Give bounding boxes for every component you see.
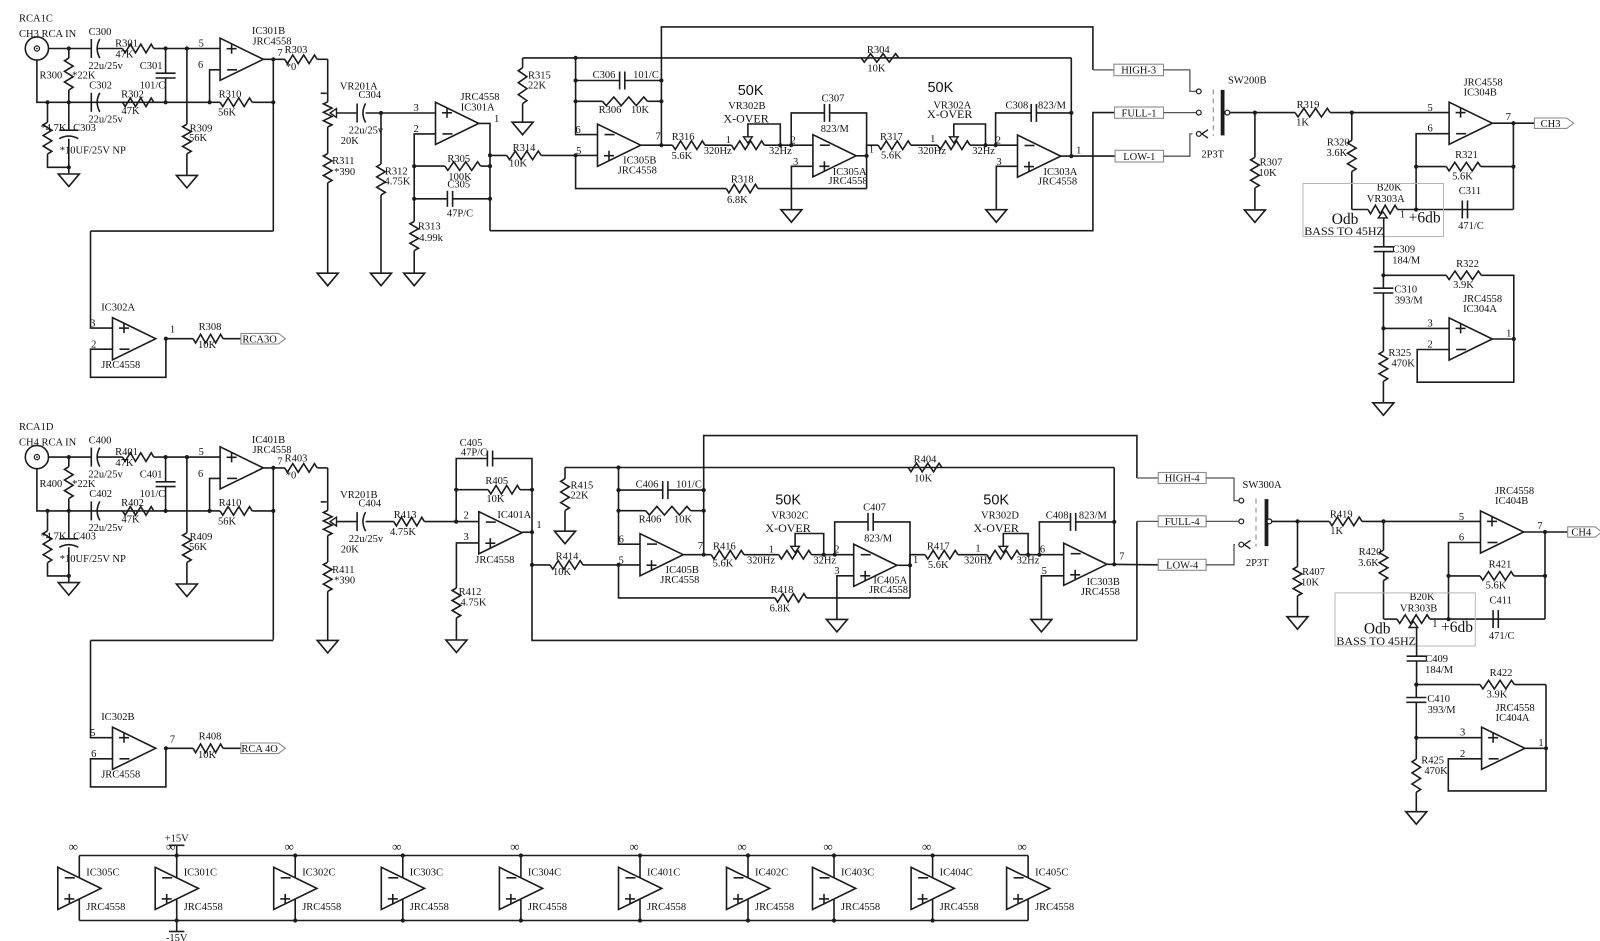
svg-text:1: 1 <box>913 555 918 566</box>
wire out IC405A <box>897 564 910 566</box>
svg-text:56K: 56K <box>189 542 208 553</box>
node V- IC401C <box>638 918 642 922</box>
node pot out <box>1414 207 1418 211</box>
power pins IC402C <box>747 856 749 921</box>
svg-text:IC302A: IC302A <box>101 303 135 314</box>
svg-text:1: 1 <box>170 325 175 336</box>
node V- IC304C <box>519 918 523 922</box>
svg-text:JRC4558: JRC4558 <box>869 585 908 596</box>
ground input filter <box>58 583 79 596</box>
freq label 320Hz b <box>918 146 946 157</box>
value label 50K b <box>927 80 953 96</box>
node pin6-R321 left <box>1414 165 1418 169</box>
wire out IC303A <box>1061 155 1115 157</box>
node row2 a <box>45 509 49 513</box>
pin label 7 <box>277 48 282 59</box>
wire jack shell down <box>37 469 48 511</box>
ground VR201B <box>317 591 338 653</box>
ground pin3 IC305A <box>781 210 802 223</box>
wire pot node <box>1430 618 1545 620</box>
node row2 b <box>67 509 71 513</box>
power pins IC401C <box>639 856 641 921</box>
wire C301 lead2 <box>165 487 167 511</box>
svg-text:22u/25v: 22u/25v <box>88 470 123 481</box>
wire C407 loop right <box>873 522 910 565</box>
svg-text:C300: C300 <box>89 27 112 38</box>
node out-R314 <box>488 153 492 157</box>
svg-text:7: 7 <box>698 541 703 552</box>
svg-text:101/C: 101/C <box>676 480 702 491</box>
wire to pot <box>327 468 329 511</box>
svg-text:LOW-1: LOW-1 <box>1123 152 1155 163</box>
potentiometer VR303B <box>1397 592 1437 627</box>
svg-text:+6db: +6db <box>1409 209 1441 226</box>
ground R415 <box>555 531 576 544</box>
resistor R308 <box>166 322 241 351</box>
pin label 1 IC305A <box>869 145 874 156</box>
svg-text:6: 6 <box>619 534 624 545</box>
capacitor C411 <box>1489 596 1515 642</box>
node out IC405A <box>908 563 912 567</box>
pin label 2 IC301A <box>413 124 418 135</box>
svg-text:JRC4558: JRC4558 <box>101 770 140 781</box>
resistor R319 <box>1295 100 1352 129</box>
resistor R401 <box>97 447 166 469</box>
svg-text:IC404A: IC404A <box>1496 713 1530 724</box>
wire interstage link bottom <box>91 639 274 641</box>
annotation box bass <box>1335 593 1475 646</box>
resistor R405 <box>456 476 532 505</box>
svg-text:JRC4558: JRC4558 <box>841 902 880 913</box>
svg-text:320Hz: 320Hz <box>747 556 775 567</box>
pin label 3 IC401A <box>463 532 468 543</box>
wire buffer input column <box>91 231 113 328</box>
svg-text:R402: R402 <box>121 498 144 509</box>
svg-text:*0: *0 <box>286 62 297 73</box>
wire row1 to opamp <box>166 48 221 50</box>
wire C408 loop right <box>1076 521 1115 523</box>
power pins IC404C <box>932 856 934 921</box>
svg-text:3: 3 <box>1460 728 1465 739</box>
capacitor C401 <box>140 470 176 501</box>
pin label - buffer <box>91 749 96 760</box>
pin label 7 <box>277 457 282 468</box>
wire out up to R417 <box>910 555 925 566</box>
svg-text:C309: C309 <box>1392 245 1415 256</box>
svg-text:R404: R404 <box>914 455 938 466</box>
node C408 right <box>1112 520 1116 524</box>
ref label VR302D <box>981 511 1019 522</box>
pin label 5 <box>199 38 204 49</box>
svg-text:47K: 47K <box>115 50 134 61</box>
svg-text:C400: C400 <box>89 435 112 446</box>
resistor R304 <box>861 45 899 75</box>
node V+ IC303C <box>401 853 405 857</box>
svg-text:6: 6 <box>198 469 203 480</box>
svg-text:R325: R325 <box>1388 348 1411 359</box>
resistor R306 <box>576 97 662 116</box>
node C303 bottom <box>67 165 71 169</box>
infinity mark IC303C <box>392 839 401 854</box>
node input row1 <box>67 455 71 459</box>
node V- IC404C <box>931 918 935 922</box>
wire out lowamp <box>1492 338 1514 340</box>
capacitor C307 <box>821 93 850 135</box>
svg-text:HIGH-4: HIGH-4 <box>1165 474 1201 485</box>
power pins IC301C <box>176 856 178 921</box>
node out <box>1511 121 1515 125</box>
net tag CH3 <box>1534 118 1573 130</box>
svg-text:1: 1 <box>1076 145 1081 156</box>
svg-text:471/C: 471/C <box>1458 221 1484 232</box>
svg-text:R316: R316 <box>672 132 695 143</box>
wire C305 lead2 <box>453 198 490 200</box>
net tag FULL-4 <box>1158 516 1206 528</box>
resistor R408 <box>166 732 241 761</box>
pin label 2 IC405A <box>834 545 839 556</box>
wire R304 column <box>1070 58 1072 156</box>
wire buffer fb loop <box>91 748 166 787</box>
power pins IC302C <box>294 856 296 921</box>
op-amp IC301C <box>155 867 223 913</box>
node out lowamp <box>1544 746 1548 750</box>
svg-text:C402: C402 <box>89 489 112 500</box>
wire FULL-1 to contact <box>1164 112 1197 114</box>
svg-text:10K: 10K <box>631 105 650 116</box>
svg-text:3: 3 <box>413 103 418 114</box>
svg-text:FULL-1: FULL-1 <box>1122 108 1157 119</box>
svg-text:IC304C: IC304C <box>528 867 561 878</box>
resistor R420 <box>1358 521 1388 619</box>
wire R418 row <box>619 565 776 598</box>
freq label 32Hz d <box>1017 556 1040 567</box>
svg-text:5.6K: 5.6K <box>713 558 734 569</box>
svg-text:R306: R306 <box>599 105 622 116</box>
ground R412 <box>446 618 467 653</box>
svg-text:7: 7 <box>277 457 282 468</box>
resistor R404 <box>908 455 942 485</box>
capacitor C408 <box>1046 511 1108 531</box>
power +15V <box>165 834 189 856</box>
svg-text:47P/C: 47P/C <box>461 448 487 459</box>
svg-text:IC401C: IC401C <box>647 867 680 878</box>
svg-text:R305: R305 <box>447 154 470 165</box>
node out lowamp <box>1512 337 1516 341</box>
op-amp IC404C <box>911 867 979 913</box>
op-amp IC405C <box>1007 867 1075 913</box>
wire C405 loop left <box>456 459 487 522</box>
svg-text:823/M: 823/M <box>821 124 850 135</box>
potentiometer VR303A <box>1367 183 1405 218</box>
pin label out buffer <box>170 325 175 336</box>
wire interstage link top <box>91 230 274 232</box>
svg-text:6: 6 <box>1040 545 1045 556</box>
freq label 32Hz c <box>813 556 836 567</box>
resistor R313 <box>410 199 444 251</box>
net tag LOW-4 <box>1158 559 1206 571</box>
svg-text:HIGH-3: HIGH-3 <box>1121 66 1156 77</box>
svg-text:3.6K: 3.6K <box>1326 148 1347 159</box>
pin label 5 outamp <box>1427 103 1432 114</box>
svg-text:R321: R321 <box>1455 150 1478 161</box>
function label X-OVER c <box>765 521 810 535</box>
wire C406 lead2 <box>668 489 704 491</box>
capacitor C305 <box>447 180 473 220</box>
node V+ IC301C <box>175 853 179 857</box>
wire row2 <box>48 510 210 512</box>
wire C309 to node <box>1416 661 1418 685</box>
svg-text:50K: 50K <box>927 80 953 96</box>
pin label 1 VR302A <box>930 134 935 145</box>
wire pin5 IC305B <box>576 154 598 156</box>
svg-text:JRC4558: JRC4558 <box>410 902 449 913</box>
svg-text:22K: 22K <box>571 490 590 501</box>
wire C407 loop left <box>835 522 868 555</box>
svg-text:∞: ∞ <box>510 839 519 854</box>
svg-text:SW200B: SW200B <box>1228 76 1267 87</box>
wire pin5 IC303B <box>1041 576 1063 620</box>
wire C305 lead1 <box>414 198 447 200</box>
wire out lowamp <box>1525 747 1546 749</box>
node pin6 row2 <box>208 100 212 104</box>
capacitor C310 <box>1373 285 1423 307</box>
node pin3 lowamp <box>1414 736 1418 740</box>
svg-text:101/C: 101/C <box>633 70 659 81</box>
svg-text:C407: C407 <box>863 502 886 513</box>
resistor R419 <box>1329 509 1383 536</box>
capacitor C407 <box>863 502 893 544</box>
capacitor C306 <box>593 70 659 90</box>
node V+ IC304C <box>519 853 523 857</box>
svg-text:B20K: B20K <box>1377 183 1403 194</box>
svg-text:C304: C304 <box>358 90 382 101</box>
node pin6 row2 <box>208 509 212 513</box>
svg-text:R419: R419 <box>1330 509 1353 520</box>
svg-text:3: 3 <box>1427 318 1432 329</box>
svg-text:R421: R421 <box>1489 559 1512 570</box>
op-amp IC303A <box>1018 135 1078 187</box>
node fb R305 left <box>412 164 416 168</box>
svg-text:C302: C302 <box>89 80 112 91</box>
potentiometer VR201A <box>321 81 378 147</box>
svg-text:JRC4558: JRC4558 <box>940 902 979 913</box>
ground R315 <box>512 122 533 135</box>
infinity mark IC304C <box>510 839 519 854</box>
resistor R321 <box>1416 150 1513 182</box>
svg-text:CH3 RCA IN: CH3 RCA IN <box>19 29 77 40</box>
potentiometer VR302C <box>779 534 824 560</box>
capacitor C301 <box>140 61 176 92</box>
pin label 1 pot <box>1400 210 1405 221</box>
node R405 left <box>454 488 458 492</box>
wire 4.7K to node <box>48 154 69 167</box>
resistor R400 <box>40 457 96 511</box>
wire pot to pin2 <box>764 144 813 146</box>
svg-text:4.75K: 4.75K <box>385 176 411 187</box>
svg-text:R310: R310 <box>219 89 242 100</box>
svg-text:2: 2 <box>996 136 1001 147</box>
svg-text:-15V: -15V <box>166 933 188 941</box>
node V+ IC404C <box>931 853 935 857</box>
svg-text:R302: R302 <box>121 89 144 100</box>
svg-text:*10UF/25V NP: *10UF/25V NP <box>60 146 126 157</box>
node pin5 row1 <box>185 46 189 50</box>
svg-text:RCA3O: RCA3O <box>242 334 277 345</box>
svg-text:1: 1 <box>536 520 541 531</box>
wire top loop <box>661 27 1093 145</box>
svg-text:JRC4558: JRC4558 <box>86 902 125 913</box>
wire out IC305A <box>856 155 867 157</box>
pin label 2 IC303A <box>996 136 1001 147</box>
node V- IC403C <box>832 918 836 922</box>
pin label 7 outamp <box>1506 112 1511 123</box>
svg-text:R317: R317 <box>880 132 903 143</box>
resistor R300 <box>40 49 96 103</box>
resistor R414 <box>532 552 619 578</box>
svg-text:50K: 50K <box>775 493 801 509</box>
capacitor C404 <box>349 499 384 546</box>
op-amp IC405B <box>640 534 699 587</box>
pin label out buffer <box>170 734 175 745</box>
svg-text:R308: R308 <box>199 322 222 333</box>
resistor R320 <box>1326 113 1356 210</box>
svg-text:∞: ∞ <box>1017 839 1026 854</box>
resistor R307 <box>1251 113 1283 188</box>
pin label 3 IC301A <box>413 103 418 114</box>
svg-text:2: 2 <box>463 510 468 521</box>
node C309-R322 <box>1414 683 1418 687</box>
wire R322 col down <box>1545 685 1547 749</box>
svg-text:R410: R410 <box>219 498 242 509</box>
wire fb col left <box>576 58 598 135</box>
svg-text:R411: R411 <box>332 565 354 576</box>
pin label 6 <box>198 469 203 480</box>
op-amp IC404A <box>1482 703 1535 769</box>
svg-text:BASS TO 45HZ: BASS TO 45HZ <box>1304 224 1384 238</box>
svg-text:3.9K: 3.9K <box>1487 689 1508 700</box>
ref label VR302C <box>771 511 808 522</box>
svg-text:7: 7 <box>655 131 660 142</box>
wire wiper down <box>1416 628 1418 657</box>
potentiometer VR201B <box>321 490 378 556</box>
svg-text:R412: R412 <box>459 587 482 598</box>
wire unity loop <box>1417 339 1514 382</box>
annotation BASS TO 45HZ <box>1304 224 1384 238</box>
pin label 6 outamp <box>1427 124 1432 135</box>
pin label 1 VR302B <box>726 135 731 146</box>
power -15V <box>166 921 188 941</box>
svg-text:5: 5 <box>90 728 95 739</box>
ground R313 <box>404 251 425 286</box>
pin label 2 IC401A <box>463 510 468 521</box>
node C308 column <box>994 143 998 147</box>
svg-text:393/M: 393/M <box>1395 296 1424 307</box>
wire R318 up <box>866 156 868 189</box>
svg-text:7: 7 <box>1119 551 1124 562</box>
node C308 right <box>1069 111 1073 115</box>
wire common out b <box>1272 520 1330 522</box>
node out IC305B <box>659 143 663 147</box>
svg-text:7: 7 <box>1537 521 1542 532</box>
svg-text:4.75K: 4.75K <box>390 527 416 538</box>
pin label 1 IC301A <box>494 114 499 125</box>
function label X-OVER d <box>974 521 1019 535</box>
ground R309 <box>176 154 197 188</box>
resistor R410 <box>210 498 274 527</box>
svg-text:RCA1D: RCA1D <box>19 422 54 433</box>
op-amp IC305C <box>58 867 126 913</box>
infinity mark IC301C <box>166 839 175 854</box>
wire FULL-4 to contact <box>1206 520 1239 522</box>
wire R318 row <box>576 155 727 188</box>
node V+ IC302C <box>293 853 297 857</box>
svg-text:C406: C406 <box>636 480 659 491</box>
svg-text:2P3T: 2P3T <box>1246 558 1269 569</box>
op-amp IC305B <box>598 124 657 177</box>
wire out to tag <box>1524 531 1568 533</box>
svg-text:10K: 10K <box>509 158 528 169</box>
svg-text:IC303C: IC303C <box>410 867 443 878</box>
wire HIGH-3 to contact <box>1164 70 1197 92</box>
capacitor C400 <box>88 435 123 480</box>
pin label 3 lowamp <box>1460 728 1465 739</box>
svg-text:IC405C: IC405C <box>1035 867 1068 878</box>
svg-text:R414: R414 <box>556 552 580 563</box>
wire right column <box>1544 532 1546 619</box>
svg-text:32Hz: 32Hz <box>813 556 836 567</box>
svg-text:32Hz: 32Hz <box>972 146 995 157</box>
wire rail y467 <box>565 467 1114 469</box>
pin label 1 pot <box>1432 619 1437 630</box>
gain label Odb <box>1332 211 1359 228</box>
svg-text:1: 1 <box>769 545 774 556</box>
svg-text:1: 1 <box>1506 329 1511 340</box>
svg-text:IC404B: IC404B <box>1495 496 1528 507</box>
capacitor C300 <box>88 27 123 72</box>
wire C307 loop right <box>830 113 867 156</box>
svg-text:R401: R401 <box>115 447 138 458</box>
resistor R412 <box>452 587 487 618</box>
svg-text:1K: 1K <box>1330 526 1343 537</box>
svg-text:*390: *390 <box>334 167 355 178</box>
resistor R310 <box>210 89 274 118</box>
svg-text:C401: C401 <box>140 470 163 481</box>
node V- IC301C <box>175 918 179 922</box>
svg-text:IC403C: IC403C <box>841 867 874 878</box>
resistor R315 <box>518 58 550 122</box>
svg-text:10K: 10K <box>198 340 217 351</box>
node C406 right <box>702 488 706 492</box>
svg-text:5.6K: 5.6K <box>672 151 693 162</box>
wire row2 <box>48 101 210 103</box>
svg-text:7: 7 <box>277 48 282 59</box>
capacitor C311 <box>1458 186 1484 232</box>
net tag FULL-1 <box>1115 107 1164 119</box>
wire FULL-4 stub <box>1137 520 1158 522</box>
ground R312 <box>371 195 392 286</box>
svg-text:*4.7K: *4.7K <box>41 123 67 134</box>
pin label 1 lowamp <box>1538 738 1543 749</box>
wire out IC303B <box>1107 563 1158 566</box>
op-amp IC405A <box>854 544 908 596</box>
svg-text:47K: 47K <box>122 106 141 117</box>
infinity mark IC405C <box>1017 839 1026 854</box>
ground pin3 IC405A <box>826 619 847 632</box>
pin label - buffer <box>91 339 96 350</box>
node R321 right <box>1543 574 1547 578</box>
svg-text:393/M: 393/M <box>1428 705 1457 716</box>
wire top loop bottom <box>704 436 1137 555</box>
